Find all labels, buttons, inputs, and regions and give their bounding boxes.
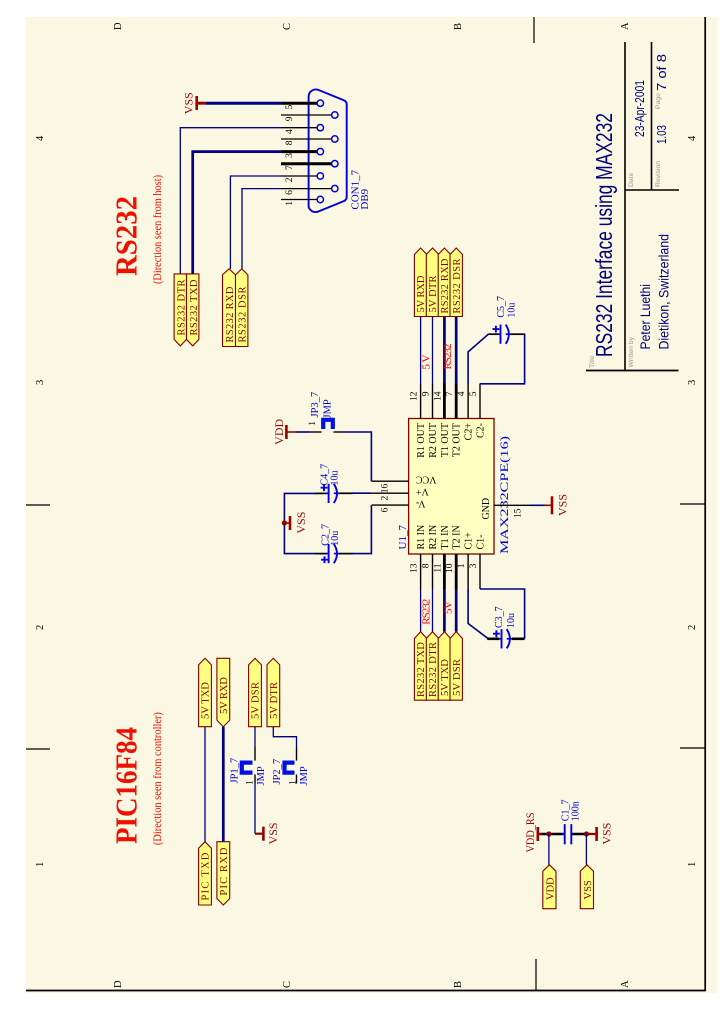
svg-text:1: 1 bbox=[246, 780, 256, 785]
svg-text:4: 4 bbox=[35, 135, 46, 141]
svg-text:1.03: 1.03 bbox=[655, 125, 669, 144]
svg-text:9: 9 bbox=[422, 391, 432, 396]
svg-text:U1_7: U1_7 bbox=[397, 525, 409, 550]
offpage flag 5V DTR at PIC bbox=[267, 658, 280, 726]
power symbol VSS at GND bbox=[545, 494, 570, 516]
svg-text:10u: 10u bbox=[330, 531, 341, 546]
svg-text:T1 IN: T1 IN bbox=[440, 525, 451, 549]
svg-text:RS232 RXD: RS232 RXD bbox=[440, 258, 451, 313]
svg-text:2: 2 bbox=[35, 625, 46, 630]
svg-text:5: 5 bbox=[469, 391, 479, 396]
frame tick right B|A bbox=[533, 17, 535, 43]
U1 left pin stubs thin bbox=[421, 554, 480, 589]
svg-text:D: D bbox=[113, 22, 124, 30]
svg-text:C2-: C2- bbox=[476, 423, 487, 438]
svg-text:1: 1 bbox=[457, 563, 467, 568]
svg-text:T2 IN: T2 IN bbox=[452, 525, 463, 549]
svg-text:2: 2 bbox=[687, 625, 698, 630]
svg-text:C2+: C2+ bbox=[464, 423, 475, 441]
C3 plus sign bbox=[493, 630, 500, 637]
U1 right pin stubs thin bbox=[421, 384, 480, 419]
svg-text:R1 OUT: R1 OUT bbox=[416, 423, 427, 458]
svg-text:A: A bbox=[620, 980, 631, 988]
svg-text:JP2_7: JP2_7 bbox=[272, 759, 283, 785]
IC U1 MAX232 body bbox=[409, 419, 494, 555]
wire C2+ pin4 to C5 bbox=[468, 334, 490, 383]
svg-text:3: 3 bbox=[285, 153, 295, 158]
svg-text:8: 8 bbox=[285, 140, 295, 145]
C4 plus sign bbox=[321, 484, 328, 491]
offpage flag 5V DTR bbox=[426, 248, 439, 317]
capacitor C2 plates bbox=[326, 544, 340, 563]
offpage flag VDD bbox=[543, 865, 557, 909]
offpage flag RS232 DTR at U1 bbox=[426, 632, 439, 701]
svg-text:RS232: RS232 bbox=[420, 599, 432, 625]
wire C2 bottom to V- bbox=[352, 505, 371, 553]
wire VSS to pin5 thick bbox=[206, 102, 281, 105]
jumper JP2 bracket bbox=[285, 763, 295, 773]
title block left border bbox=[586, 370, 679, 372]
frame bottom border line bbox=[704, 17, 706, 991]
svg-text:RS232 Interface using MAX232: RS232 Interface using MAX232 bbox=[591, 113, 617, 357]
JP1 pin1 stub bbox=[254, 747, 256, 761]
svg-text:C1-: C1- bbox=[476, 535, 487, 550]
svg-text:100n: 100n bbox=[571, 801, 582, 821]
frame tick bottom 2|3 bbox=[680, 503, 705, 505]
svg-text:1: 1 bbox=[687, 862, 698, 867]
svg-text:MAX232CPE(16): MAX232CPE(16) bbox=[499, 436, 511, 554]
wire RS232 TXD flag to pin3 thick bbox=[193, 152, 281, 274]
svg-text:1: 1 bbox=[35, 862, 46, 867]
U1 top pin numbers bbox=[381, 483, 391, 512]
offpage flag RS232 DTR bbox=[174, 274, 187, 346]
offpage flag 5V TXD at PIC bbox=[199, 658, 212, 726]
C5 plus sign bbox=[493, 326, 500, 333]
svg-text:1: 1 bbox=[285, 201, 295, 206]
C4 pin stubs black bbox=[316, 492, 353, 494]
svg-text:T1 OUT: T1 OUT bbox=[440, 423, 451, 457]
svg-text:VDD_RS: VDD_RS bbox=[523, 813, 537, 853]
svg-text:VCC: VCC bbox=[416, 474, 437, 485]
CON1 pin stub thick pin 5 bbox=[281, 102, 317, 105]
connector CON1 DB9 outline bbox=[309, 89, 347, 212]
wire C3 to C1- pin3 bbox=[480, 589, 525, 639]
power symbol VSS at DB9 pin5 bbox=[182, 92, 207, 114]
junction dot VSS tap bbox=[282, 520, 287, 525]
wire JP3 to VCC bbox=[343, 432, 371, 481]
title block vertical divider Writtenby/Date bbox=[625, 189, 680, 191]
svg-text:5V TXD: 5V TXD bbox=[201, 682, 212, 719]
svg-text:R1 IN: R1 IN bbox=[416, 525, 427, 550]
svg-text:6: 6 bbox=[381, 507, 391, 512]
svg-text:C5_7: C5_7 bbox=[496, 296, 507, 318]
svg-text:Peter Luethi: Peter Luethi bbox=[637, 284, 653, 350]
frame tick top 1|2 bbox=[26, 748, 50, 750]
svg-text:5V DTR: 5V DTR bbox=[428, 276, 439, 313]
U1 GND pin stub bbox=[494, 504, 530, 506]
wire 5V DSR to JP1 bbox=[254, 727, 256, 747]
svg-text:VSS: VSS bbox=[556, 494, 570, 516]
capacitor C1 plates bbox=[562, 824, 574, 844]
svg-text:14: 14 bbox=[433, 391, 443, 401]
offpage flag RS232 DSR at U1 bbox=[450, 248, 463, 317]
svg-text:V-: V- bbox=[416, 498, 426, 509]
JP3 pin2 stub bbox=[334, 431, 344, 433]
JP2 pin1 stub bbox=[296, 747, 298, 761]
offpage flag RS232 TXD bbox=[187, 274, 200, 346]
svg-text:13: 13 bbox=[410, 563, 420, 573]
svg-text:4: 4 bbox=[457, 391, 467, 396]
svg-text:11: 11 bbox=[433, 563, 443, 572]
U1 left pin labels bbox=[416, 525, 486, 550]
svg-text:R2 IN: R2 IN bbox=[428, 525, 439, 550]
wire VSS junction to VSS flag bbox=[585, 834, 587, 865]
wire VDD junction to VDD flag bbox=[548, 834, 550, 865]
power symbol VDD at JP3 bbox=[272, 418, 295, 444]
svg-text:5V DTR: 5V DTR bbox=[269, 682, 280, 719]
wire 5V DTR to JP2 bbox=[273, 727, 296, 747]
wire C1 to VSS thick black bbox=[572, 833, 589, 836]
wire R1OUT to 5V RXD flag bbox=[420, 317, 422, 384]
svg-text:RS232 RXD: RS232 RXD bbox=[225, 286, 236, 342]
svg-text:VSS: VSS bbox=[182, 92, 196, 114]
svg-text:C: C bbox=[282, 23, 293, 30]
svg-text:5V: 5V bbox=[420, 354, 432, 369]
svg-text:VSS: VSS bbox=[600, 823, 614, 845]
svg-text:10u: 10u bbox=[330, 471, 341, 486]
power symbol VDD_RS bbox=[523, 813, 541, 853]
C2 plus sign bbox=[321, 556, 328, 563]
CON1 pin numbers bbox=[285, 104, 295, 205]
U1 right pin stubs thick T1OUT T2OUT bbox=[444, 384, 456, 419]
frame tick left B|A bbox=[535, 959, 537, 991]
wire C3 bottom segment thick black bbox=[512, 637, 525, 640]
junction dot VSS bbox=[584, 831, 589, 836]
zone numbers bottom edge bbox=[687, 135, 698, 867]
svg-text:4: 4 bbox=[687, 135, 698, 141]
svg-text:5V DSR: 5V DSR bbox=[251, 682, 262, 719]
U1 right pin labels bbox=[416, 423, 486, 458]
svg-text:RS232 DSR: RS232 DSR bbox=[452, 259, 463, 314]
wire T2IN to 5V DSR flag thick bbox=[455, 589, 458, 632]
U1 left pin stubs thick T1IN T2IN bbox=[444, 554, 456, 589]
svg-text:DB9: DB9 bbox=[359, 188, 371, 209]
svg-text:RS232: RS232 bbox=[442, 344, 454, 370]
zone numbers top edge bbox=[35, 135, 46, 867]
C5 pin stubs black bbox=[490, 333, 524, 335]
wire C1+ pin1 to C3 bbox=[468, 589, 488, 639]
wire RS232 DSR flag to pin6 bbox=[242, 189, 281, 269]
svg-text:R2 OUT: R2 OUT bbox=[428, 423, 439, 458]
frame tick bottom 1|2 bbox=[680, 747, 705, 749]
svg-text:VSS: VSS bbox=[583, 880, 594, 899]
wire VDD_RS to C1 thick black bbox=[542, 833, 564, 836]
wire C5 bottom to C2- pin5 bbox=[480, 334, 525, 384]
junction dot VDD bbox=[546, 831, 551, 836]
svg-text:RS232 DSR: RS232 DSR bbox=[238, 287, 249, 343]
offpage flag PIC TXD bbox=[199, 842, 212, 905]
svg-text:RS232: RS232 bbox=[109, 196, 144, 276]
svg-text:10u: 10u bbox=[507, 303, 518, 318]
CON1 pin stubs thin pins 1 2 4 bbox=[281, 128, 317, 200]
svg-text:PIC RXD: PIC RXD bbox=[219, 847, 230, 895]
wire C3 top segment thick black bbox=[487, 637, 499, 640]
svg-text:VDD: VDD bbox=[272, 418, 286, 444]
svg-text:Written by: Written by bbox=[628, 336, 635, 367]
svg-text:10u: 10u bbox=[506, 613, 517, 628]
offpage flag VSS bbox=[580, 865, 594, 909]
svg-text:7: 7 bbox=[285, 165, 295, 170]
svg-text:JP1_7: JP1_7 bbox=[230, 758, 241, 784]
CON1 pin stubs thin pins 6 8 9 bbox=[281, 115, 332, 189]
power symbol VSS at JP1 bbox=[255, 822, 280, 844]
CON1 pin circles row 6-9 bbox=[332, 112, 338, 192]
svg-text:7: 7 bbox=[445, 391, 455, 396]
svg-text:2: 2 bbox=[285, 177, 295, 182]
capacitor C3 plates bbox=[499, 629, 513, 648]
svg-text:B: B bbox=[453, 23, 464, 30]
svg-text:Date: Date bbox=[628, 172, 635, 187]
svg-text:12: 12 bbox=[410, 391, 420, 401]
wire PIC RXD to 5V RXD thick bbox=[222, 727, 225, 842]
svg-text:RS232 TXD: RS232 TXD bbox=[189, 279, 200, 335]
offpage flag 5V RXD bbox=[414, 248, 427, 317]
svg-text:Page: Page bbox=[655, 93, 662, 109]
svg-text:5V TXD: 5V TXD bbox=[440, 659, 451, 696]
svg-text:PIC TXD: PIC TXD bbox=[201, 852, 212, 900]
JP2 pin2 stub bbox=[296, 774, 298, 783]
svg-text:B: B bbox=[453, 981, 464, 988]
wire JP1 to VSS bbox=[254, 784, 256, 834]
CON1 pin circles row 1-5 bbox=[317, 100, 323, 203]
svg-text:16: 16 bbox=[381, 483, 391, 493]
JP3 pin1 stub bbox=[310, 431, 322, 433]
wire GND to VSS bbox=[530, 504, 545, 506]
svg-text:5V RXD: 5V RXD bbox=[416, 275, 427, 312]
wire PIC TXD to 5V TXD bbox=[204, 727, 206, 842]
U1 left pin numbers bbox=[410, 563, 479, 573]
power symbol VSS bottom right bbox=[590, 823, 614, 845]
svg-text:VSS: VSS bbox=[266, 822, 280, 844]
wire T1IN to 5V TXD flag thick bbox=[443, 589, 446, 632]
svg-text:(Direction seen from host): (Direction seen from host) bbox=[152, 175, 164, 284]
wire T1OUT to RS232 RXD flag thick bbox=[443, 317, 446, 384]
svg-text:23-Apr-2001: 23-Apr-2001 bbox=[633, 80, 647, 137]
offpage flag 5V DSR at U1 bbox=[450, 632, 463, 701]
svg-text:C3_7: C3_7 bbox=[494, 606, 505, 628]
wire T2OUT to RS232 DSR flag thick bbox=[455, 317, 458, 384]
title block horizontal divider under Title row bbox=[624, 42, 626, 371]
svg-text:JP3_7: JP3_7 bbox=[310, 392, 321, 418]
frame left border line bbox=[26, 990, 705, 992]
offpage flag RS232 DSR at DB9 bbox=[236, 269, 249, 347]
svg-text:T2 OUT: T2 OUT bbox=[452, 423, 463, 457]
svg-text:6: 6 bbox=[285, 190, 295, 195]
svg-text:5: 5 bbox=[285, 104, 295, 109]
svg-text:JMP: JMP bbox=[299, 766, 310, 785]
offpage flag PIC RXD bbox=[217, 842, 230, 905]
C2 pin stubs black bbox=[316, 553, 353, 555]
power symbol VSS at C4 C2 bbox=[284, 512, 308, 534]
CON1 pin stub thick pin 3 bbox=[281, 150, 317, 153]
svg-text:RS232 DTR: RS232 DTR bbox=[176, 280, 187, 336]
wire C4 bottom to V+ bbox=[352, 492, 372, 494]
JP1 pin2 stub bbox=[254, 774, 256, 783]
svg-text:3: 3 bbox=[35, 380, 46, 385]
svg-text:5V DSR: 5V DSR bbox=[452, 659, 463, 696]
CON1 pin stub thick pin 7 bbox=[281, 162, 332, 165]
wire R2IN to RS232 DTR flag bbox=[432, 589, 434, 632]
svg-text:VSS: VSS bbox=[294, 512, 308, 534]
svg-text:8: 8 bbox=[422, 563, 432, 568]
wire VDD to JP3 pin1 bbox=[296, 431, 310, 433]
svg-text:4: 4 bbox=[285, 129, 295, 134]
svg-text:5V: 5V bbox=[443, 601, 455, 614]
svg-text:3: 3 bbox=[687, 380, 698, 385]
svg-text:Revision: Revision bbox=[655, 161, 662, 187]
offpage flag 5V DSR at PIC bbox=[249, 658, 262, 726]
jumper JP3 bracket bbox=[323, 420, 333, 429]
svg-text:RS232 TXD: RS232 TXD bbox=[416, 642, 427, 697]
svg-text:5V RXD: 5V RXD bbox=[219, 677, 230, 714]
capacitor C5 plates bbox=[498, 325, 512, 344]
svg-text:1: 1 bbox=[308, 421, 318, 426]
svg-text:RS232 DTR: RS232 DTR bbox=[428, 642, 439, 697]
svg-text:2: 2 bbox=[381, 495, 391, 500]
wire R2OUT to 5V DTR flag bbox=[432, 317, 434, 384]
svg-text:9: 9 bbox=[285, 116, 295, 121]
offpage flag RS232 TXD at U1 bbox=[414, 632, 427, 701]
svg-text:A: A bbox=[620, 22, 631, 30]
svg-text:D: D bbox=[113, 980, 124, 988]
title block horizontal divider Date/Revision bbox=[651, 42, 653, 190]
svg-text:VDD: VDD bbox=[545, 877, 556, 900]
svg-text:JMP: JMP bbox=[323, 399, 334, 418]
offpage flag 5V RXD at PIC bbox=[217, 658, 230, 726]
svg-text:GND: GND bbox=[481, 498, 492, 520]
frame tick top 2|3 bbox=[26, 504, 50, 506]
wire C4 top to VSS junction bbox=[284, 493, 316, 553]
svg-text:C1+: C1+ bbox=[464, 532, 475, 550]
svg-text:Dietikon, Switzerland: Dietikon, Switzerland bbox=[656, 234, 672, 350]
zone letters right edge bbox=[113, 22, 631, 30]
U1 right pin numbers bbox=[410, 391, 479, 401]
U1 top pin stubs VCC V+ V- bbox=[372, 481, 409, 505]
wire RS232 DTR flag to pin4 bbox=[180, 128, 281, 274]
jumper JP1 bracket bbox=[242, 763, 253, 773]
offpage flag RS232 RXD at DB9 bbox=[223, 269, 237, 347]
offpage flag 5V TXD at U1 bbox=[438, 632, 451, 701]
zone letters left edge bbox=[113, 980, 631, 988]
svg-text:7 of 8: 7 of 8 bbox=[655, 54, 669, 91]
svg-text:C: C bbox=[282, 981, 293, 988]
svg-text:15: 15 bbox=[514, 508, 524, 518]
offpage flag RS232 RXD at U1 bbox=[438, 248, 451, 317]
svg-text:JMP: JMP bbox=[256, 766, 267, 785]
svg-text:10: 10 bbox=[445, 563, 455, 573]
svg-text:V+: V+ bbox=[416, 486, 429, 497]
svg-text:(Direction seen from controlle: (Direction seen from controller) bbox=[152, 712, 164, 845]
wire RS232 RXD flag to pin2 bbox=[230, 176, 281, 269]
svg-text:1: 1 bbox=[289, 780, 299, 785]
wire R1IN to RS232 TXD flag bbox=[420, 589, 422, 632]
svg-text:3: 3 bbox=[469, 563, 479, 568]
svg-text:PIC16F84: PIC16F84 bbox=[109, 727, 144, 844]
capacitor C4 plates bbox=[326, 484, 340, 503]
